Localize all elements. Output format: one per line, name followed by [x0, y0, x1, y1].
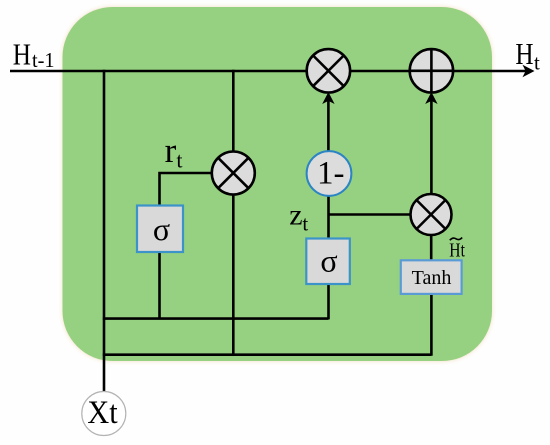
- svg-text:σ: σ: [320, 243, 337, 279]
- Xt input circle: [82, 392, 126, 436]
- svg-text:z: z: [289, 199, 302, 232]
- wire: horizontal bus B: [103, 353, 432, 356]
- wire: second vertical through reset-gate multiplier: [232, 70, 235, 356]
- wire: r-branch horizontal + vertical into sigma box: [160, 173, 212, 206]
- wire: left vertical from top line down to Xt: [103, 70, 106, 391]
- wire: horizontal bus A: [103, 317, 329, 320]
- svg-text:t-1: t-1: [32, 48, 55, 72]
- wire: below sigma r box down to bus A: [158, 252, 161, 319]
- wire: candidate multiplier up into adder, with arrow: [430, 96, 433, 195]
- arrowhead right at Ht: [523, 65, 535, 77]
- wire: candidate multiplier down to Tanh box: [430, 234, 433, 261]
- svg-text:Ht: Ht: [449, 240, 465, 262]
- multiplier circle X1 (reset gate, on Ht-1 path): [212, 152, 255, 195]
- adder circle (top right): [410, 49, 453, 92]
- wire: (1-) circle up into top multiplier, with arrow: [327, 96, 330, 151]
- svg-text:t: t: [302, 212, 308, 236]
- wire: top horizontal line Ht-1 to Ht: [10, 70, 529, 73]
- svg-text:H: H: [13, 36, 31, 71]
- multiplier circle X3 (candidate path): [411, 194, 452, 235]
- svg-text:r: r: [165, 131, 177, 170]
- svg-text:1-: 1-: [317, 156, 345, 192]
- wire: below sigma z box down to bus A: [327, 283, 330, 319]
- svg-text:t: t: [534, 50, 540, 74]
- multiplier circle X2 (top, forget path): [307, 49, 350, 92]
- wire: z vertical from (1-) circle to sigma z box: [327, 195, 330, 239]
- svg-text:t: t: [176, 147, 182, 172]
- svg-text:H: H: [515, 36, 533, 71]
- svg-text:Tanh: Tanh: [412, 267, 452, 289]
- svg-text:Xt: Xt: [87, 395, 117, 431]
- Tanh box: [401, 260, 462, 294]
- svg-text:σ: σ: [153, 211, 170, 247]
- wire: z tap horizontal to candidate multiplier: [329, 213, 412, 216]
- GRU cell body (green rounded rectangle): [63, 7, 493, 361]
- (1-) circle: [307, 151, 352, 196]
- wire: Tanh box down to bus B: [430, 293, 433, 356]
- sigma box (update gate z): [306, 239, 350, 285]
- sigma box (reset gate): [137, 206, 183, 253]
